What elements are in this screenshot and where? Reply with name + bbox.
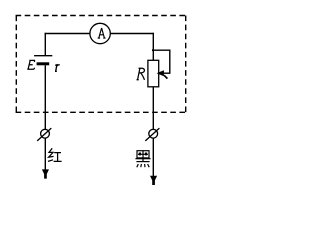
black terminal (slashed circle) bbox=[145, 128, 159, 141]
junction tick on right branch bbox=[152, 49, 153, 51]
wire: battery bottom down to red terminal bbox=[44, 65, 46, 129]
battery cell E r : short thick negative plate bbox=[37, 62, 50, 65]
red probe arrow bbox=[42, 169, 49, 178]
wire: rheostat bottom down to black terminal bbox=[152, 87, 154, 130]
wire: top horizontal left segment to ammeter bbox=[45, 33, 91, 35]
black probe arrow bbox=[150, 176, 157, 185]
label E bbox=[27, 60, 35, 69]
label 红 (red) bbox=[48, 148, 62, 161]
wire: top horizontal right segment from ammeter bbox=[110, 33, 154, 35]
dashed enclosure box bbox=[16, 16, 186, 113]
label r bbox=[55, 65, 60, 72]
wire: red terminal to red probe arrow bbox=[44, 138, 46, 170]
wire: battery top to top-left corner bbox=[44, 33, 46, 56]
ammeter A bbox=[90, 23, 110, 43]
rheostat R body bbox=[148, 60, 159, 87]
label R bbox=[137, 68, 145, 80]
wire: wiper feed branch (top horizontal) bbox=[153, 49, 170, 51]
wire: wiper feed branch (right vertical) bbox=[169, 50, 171, 74]
wire: right vertical down to rheostat top bbox=[152, 33, 154, 61]
label 黑 (black) bbox=[135, 151, 150, 168]
battery cell E r : long thin positive plate bbox=[34, 55, 52, 57]
rheostat wiper arrow bbox=[157, 70, 171, 78]
red terminal (slashed circle) bbox=[37, 128, 51, 141]
wire: black terminal to black probe arrow bbox=[152, 138, 154, 177]
